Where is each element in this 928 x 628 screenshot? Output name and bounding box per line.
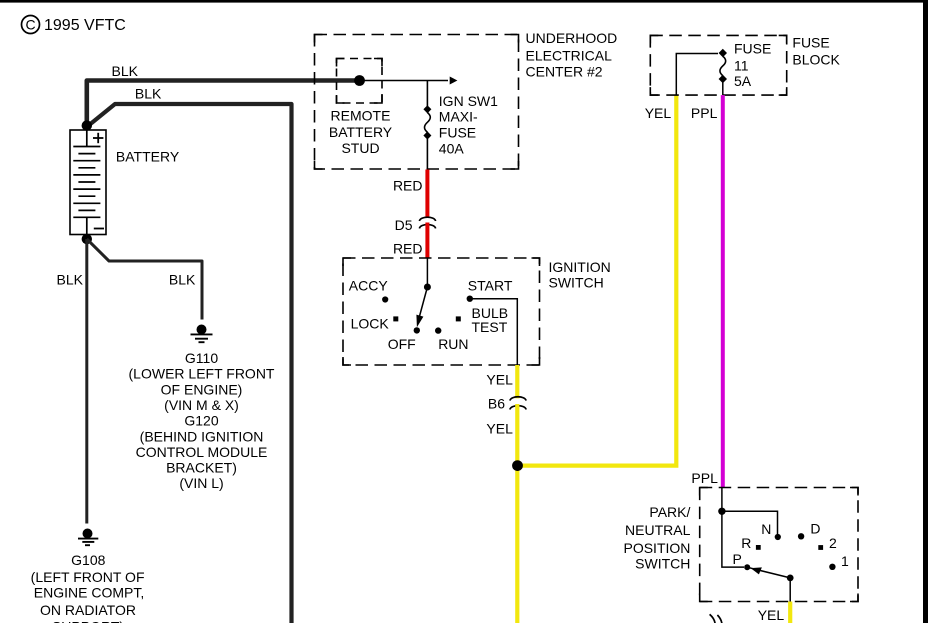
contact R [756,545,761,550]
connector arcs [710,614,722,624]
svg-text:(VIN M & X): (VIN M & X) [164,397,239,413]
svg-text:(VIN L): (VIN L) [179,475,223,491]
svg-text:BLK: BLK [112,63,139,79]
node feed junction [718,508,725,515]
svg-text:11: 11 [734,57,749,73]
label PARK/NEUTRAL POSITION SWITCH [623,504,690,571]
svg-text:P: P [733,551,742,567]
wire YEL to junction [515,404,519,466]
contact N [775,534,781,540]
wire YEL ignition output [515,365,519,398]
svg-text:BATTERY: BATTERY [329,124,393,140]
svg-text:YEL: YEL [758,607,785,623]
svg-text:ON RADIATOR: ON RADIATOR [40,602,136,618]
svg-text:FUSE: FUSE [439,125,476,141]
battery B1 [70,130,106,235]
svg-text:BLK: BLK [135,85,162,101]
right border bar [923,0,928,623]
fuse 11 5A [719,49,727,95]
top border bar [0,0,928,3]
label BULB TEST [472,305,509,335]
svg-text:RED: RED [393,241,423,257]
fuse block box [650,35,786,95]
wire wiper to box edge [789,578,791,602]
contact OFF [414,327,420,333]
svg-text:G120: G120 [184,413,218,429]
svg-text:FUSE: FUSE [792,35,829,51]
node wiper pivot [787,575,794,582]
svg-text:MAXI-: MAXI- [439,109,478,125]
wiper arm [419,287,427,317]
wire fuse to box edge [426,139,428,170]
contact BULB TEST [456,316,461,321]
svg-text:ELECTRICAL: ELECTRICAL [526,47,613,63]
svg-text:TEST: TEST [472,319,508,335]
svg-text:CENTER #2: CENTER #2 [526,64,603,80]
contact 1 [829,564,835,570]
contact D [798,533,804,539]
corner marks stud box [337,59,383,104]
svg-text:PARK/: PARK/ [649,504,690,520]
svg-text:RED: RED [393,178,423,194]
underhood electrical center #2 box [315,35,519,170]
svg-text:YEL: YEL [486,421,513,437]
svg-text:FUSE: FUSE [734,40,771,56]
svg-text:YEL: YEL [645,105,672,121]
svg-text:(LEFT FRONT OF: (LEFT FRONT OF [31,569,145,585]
corner marks fuseblock box [650,35,786,95]
wire to maxi-fuse [426,81,428,107]
wire junction to N contact [722,511,778,534]
svg-text:5A: 5A [734,73,752,89]
svg-text:BLOCK: BLOCK [792,52,840,68]
ground G108 text [31,552,145,628]
svg-text:POSITION: POSITION [623,540,690,556]
svg-text:OF ENGINE): OF ENGINE) [161,381,243,397]
label UNDERHOOD ELECTRICAL CENTER #2 [526,30,618,80]
corner marks ignition box [343,258,540,365]
node battery + terminal [82,120,92,130]
svg-text:BATTERY: BATTERY [116,149,180,165]
wire BLK battery- to G108 [85,239,88,524]
wire stud to arrow [360,80,449,82]
label FUSE 11 5A [734,40,771,89]
wire fuse block internal [676,54,718,96]
svg-text:BRACKET): BRACKET) [166,460,237,476]
contact 2 [818,545,823,550]
svg-text:LOCK: LOCK [351,316,390,332]
corner marks park box [700,488,858,602]
fuse IGN SW1 MAXI-FUSE 40A [423,105,431,139]
svg-text:B6: B6 [488,396,505,412]
ground G110 [191,325,213,343]
svg-text:SWITCH: SWITCH [549,275,604,291]
node YEL junction [512,460,523,471]
svg-text:OFF: OFF [388,336,416,352]
svg-text:N: N [761,521,771,537]
svg-text:ENGINE COMPT,: ENGINE COMPT, [34,585,144,601]
svg-text:IGNITION: IGNITION [549,259,611,275]
label REMOTE BATTERY STUD [329,107,393,156]
copyright symbol [22,16,40,34]
svg-text:REMOTE: REMOTE [331,107,391,123]
splice B6 [510,397,526,410]
svg-text:RUN: RUN [438,336,468,352]
wire feed into switch [721,488,723,512]
contact LOCK [393,316,398,321]
wiper arrowhead [416,315,423,328]
svg-text:BLK: BLK [57,272,84,288]
wire RED upper [425,170,429,218]
label FUSE BLOCK [792,35,840,68]
svg-text:PPL: PPL [691,105,718,121]
contact ACCY [382,296,388,302]
svg-text:NEUTRAL: NEUTRAL [625,522,691,538]
wire junction to P contact [722,511,744,567]
arrowhead [450,77,458,85]
wire BLK battery+ right drop [89,104,292,623]
svg-text:YEL: YEL [486,372,513,388]
wire BLK battery+ to remote stud [87,81,357,128]
svg-text:1: 1 [841,553,849,569]
wire feed into switch [426,258,428,287]
svg-text:(LOWER LEFT FRONT: (LOWER LEFT FRONT [129,366,275,382]
wire PPL fuse block to park/neutral switch [721,95,725,487]
corner marks UHEC box [315,35,519,170]
ignition switch box [343,258,540,365]
svg-text:STUD: STUD [341,140,379,156]
remote battery stud box [337,59,383,104]
node wiper pivot [424,284,431,291]
svg-text:UNDERHOOD: UNDERHOOD [526,30,618,46]
wire RED lower [425,223,429,259]
svg-text:IGN SW1: IGN SW1 [439,93,498,109]
ground G110 text [129,350,275,491]
svg-text:G108: G108 [71,552,105,568]
wiper arm park/neutral [749,568,790,578]
node remote battery stud junction [354,75,365,86]
contact START [467,296,473,302]
svg-text:SUPPORT): SUPPORT) [52,619,124,624]
park/neutral position switch box [700,488,858,602]
svg-text:1995 VFTC: 1995 VFTC [44,17,126,34]
svg-text:C: C [25,16,35,32]
wire BLK battery- to G110 [87,239,202,320]
svg-text:2: 2 [829,535,837,551]
svg-text:START: START [468,278,513,294]
svg-text:ACCY: ACCY [349,278,389,294]
wire YEL park/neutral output [788,602,792,624]
svg-text:D5: D5 [395,217,413,233]
splice D5 [419,217,435,228]
node battery - terminal [82,234,92,244]
svg-text:(BEHIND IGNITION: (BEHIND IGNITION [140,428,264,444]
svg-text:R: R [741,535,751,551]
svg-text:BLK: BLK [169,272,196,288]
contact RUN [435,327,441,333]
svg-text:PPL: PPL [691,470,718,486]
label IGN SW1 MAXI-FUSE 40A [439,93,498,157]
label IGNITION SWITCH [549,259,611,291]
svg-text:G110: G110 [185,350,218,366]
wire YEL junction down to bottom [515,466,519,623]
wiper arrowhead [751,567,762,574]
svg-text:D: D [810,521,820,537]
svg-text:CONTROL MODULE: CONTROL MODULE [136,444,268,460]
wire START to box edge [470,299,518,365]
ground G108 [78,529,98,546]
svg-text:40A: 40A [439,141,465,157]
wire YEL junction to fuse block riser [517,96,676,466]
svg-text:SWITCH: SWITCH [635,555,690,571]
contact P [744,564,750,570]
